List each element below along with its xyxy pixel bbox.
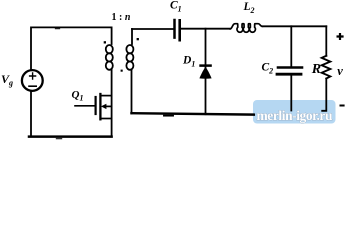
artifact tick under left rail	[57, 138, 62, 140]
label plus	[337, 33, 344, 40]
svg-text:R: R	[311, 62, 321, 77]
voltage source Vg	[22, 70, 43, 91]
wire bottom secondary rail	[132, 113, 254, 114]
transformer polarity dot secondary	[137, 38, 139, 40]
transformer core mark	[121, 70, 123, 72]
gate lead	[75, 105, 95, 107]
MOSFET Q1	[75, 94, 112, 119]
channel bar	[99, 94, 101, 119]
svg-text:merlin-igor.ru: merlin-igor.ru	[257, 108, 333, 123]
watermark box	[253, 100, 336, 124]
body stub with arrow	[106, 105, 112, 107]
diode D1 branch wire	[205, 29, 207, 115]
svg-text:v: v	[337, 64, 343, 78]
inductor L2 coil	[230, 24, 262, 33]
transformer T1 primary	[111, 27, 113, 44]
label minus	[340, 105, 345, 107]
source stub	[101, 118, 112, 120]
wire L2 to output node	[262, 25, 326, 27]
capacitor C2 plates	[278, 66, 302, 69]
wire top-left rail	[31, 27, 112, 70]
transformer polarity dot primary	[104, 41, 106, 43]
transformer T1 secondary	[131, 29, 133, 44]
wire Vg bottom lead	[30, 91, 32, 136]
svg-text:1 : n: 1 : n	[112, 12, 131, 23]
wire secondary top rail to C1	[132, 28, 173, 30]
wire bottom-left rail	[29, 135, 112, 138]
artifact nub on top rail	[56, 28, 60, 30]
capacitor C2 branch wire top	[290, 26, 292, 66]
diode D1 symbol	[199, 66, 212, 79]
capacitor C2 branch wire bottom	[290, 75, 292, 110]
gate bar	[94, 97, 96, 114]
drain stub	[101, 95, 112, 97]
artifact tick under rail	[164, 115, 173, 117]
resistor R branch	[325, 26, 327, 56]
capacitor C1 plates	[173, 20, 176, 38]
wire C1 to L2	[181, 28, 230, 30]
